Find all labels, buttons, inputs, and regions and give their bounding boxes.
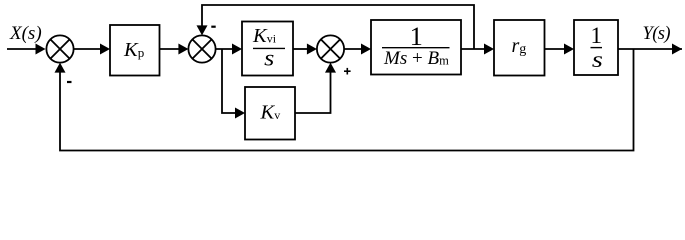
svg-text:s: s — [592, 47, 603, 72]
svg-text:Y(s): Y(s) — [643, 24, 671, 44]
svg-text:1: 1 — [591, 23, 603, 48]
svg-text:1: 1 — [410, 21, 423, 51]
svg-text:X(s): X(s) — [9, 23, 42, 44]
svg-text:s: s — [264, 46, 274, 71]
